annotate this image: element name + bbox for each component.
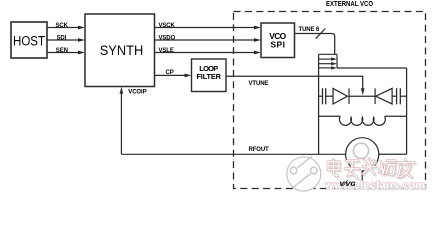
varactor D2 [375, 88, 397, 104]
wire bottom rail left [121, 153, 345, 155]
wire cap bank to right rail [337, 67, 407, 69]
cap bank bus ripper [319, 54, 337, 69]
varactor D1 [333, 88, 349, 104]
wire oscillator to ground stub [361, 171, 363, 188]
tank right rail [406, 68, 408, 154]
svg-text:SPI: SPI [270, 39, 285, 49]
svg-text:SDI: SDI [57, 35, 67, 41]
wire VTUNE loop filter to varactor node [226, 76, 365, 95]
svg-text:VSLE: VSLE [159, 48, 174, 54]
wire SEN host to synth [47, 48, 85, 55]
watermark logo circle [287, 156, 321, 191]
inductor L1 [319, 116, 407, 125]
svg-text:SYNTH: SYNTH [100, 43, 144, 58]
svg-text:VCOIP: VCOIP [128, 90, 146, 96]
wire SDI host to synth [47, 35, 85, 41]
watermark blob ring over oscillator [353, 143, 368, 158]
wire CP synth to loop filter [155, 70, 192, 77]
svg-text:SCK: SCK [56, 23, 69, 29]
svg-text:EXTERNAL VCO: EXTERNAL VCO [326, 1, 373, 8]
svg-text:VSCK: VSCK [159, 23, 176, 29]
wire bottom rail right [379, 153, 407, 155]
dashed enclosure EXTERNAL VCO [234, 12, 426, 189]
oscillator core circle [346, 138, 379, 171]
wire SCK host to synth [47, 23, 85, 30]
svg-text:RFOUT: RFOUT [249, 147, 270, 153]
wire varactor node [349, 95, 375, 97]
wire VSDO synth to vco spi [155, 35, 262, 42]
block SYNTH [85, 14, 155, 87]
block LOOP FILTER [192, 59, 227, 92]
tank left rail [318, 54, 320, 154]
svg-text:VTUNE: VTUNE [249, 81, 269, 87]
wire VSLE synth to vco spi [155, 48, 262, 55]
svg-text:CP: CP [166, 70, 174, 76]
block VCO SPI [261, 23, 295, 58]
svg-text:FILTER: FILTER [196, 72, 221, 81]
svg-text:HOST: HOST [13, 34, 45, 49]
wire RFOUT / VCOIP return to synth [120, 87, 270, 155]
block HOST [11, 22, 47, 58]
wire TUNE bus vco spi to cap bank [294, 27, 335, 54]
wire VSCK synth to vco spi [155, 23, 262, 30]
svg-text:ѵ∕ѵԍ: ѵ∕ѵԍ [340, 178, 356, 188]
capacitor C1 [319, 88, 333, 104]
watermark chinese characters (outlined) [328, 159, 416, 180]
bus width slash 6 [316, 29, 326, 39]
capacitor C2 [397, 88, 407, 104]
svg-text:SEN: SEN [56, 48, 68, 54]
svg-text:TUNE 6: TUNE 6 [299, 27, 321, 33]
svg-text:VSDO: VSDO [159, 35, 176, 41]
